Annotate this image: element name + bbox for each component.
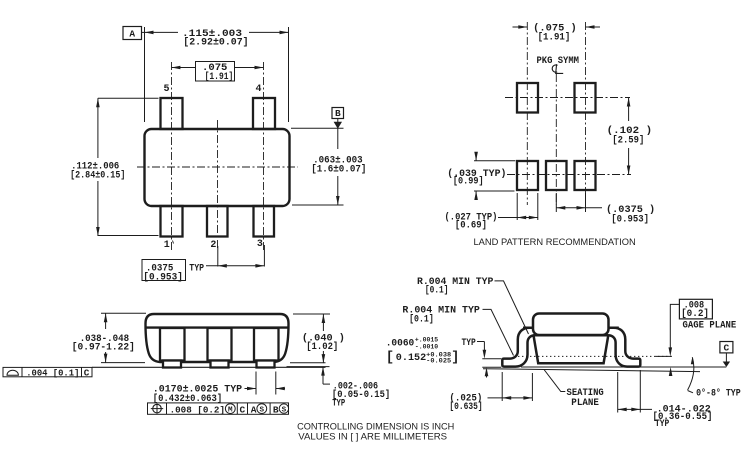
svg-text:2: 2: [210, 240, 216, 251]
svg-text:A: A: [129, 29, 135, 40]
datum C flag: [720, 342, 733, 353]
dim (.075) arrows and text: [513, 26, 528, 28]
svg-text:-.0010: -.0010: [415, 343, 438, 350]
front view: lead 3 body: [254, 328, 279, 361]
dim .115±.003 dimension line: [145, 31, 179, 33]
svg-text:[0.1]: [0.1]: [409, 313, 434, 325]
top view: dim .115±.003 left extension line: [144, 27, 146, 122]
svg-text:B: B: [273, 404, 279, 415]
pin 1: [161, 206, 183, 237]
svg-text:[: [: [386, 351, 394, 366]
leader for upper R.004: [495, 281, 529, 334]
land pad bottom-middle: [546, 161, 567, 190]
svg-text:[0.97-1.22]: [0.97-1.22]: [72, 341, 135, 353]
svg-text:[0.953]: [0.953]: [611, 213, 649, 225]
front view: body bottom extension line right: [290, 362, 326, 364]
svg-text:[2.92±0.07]: [2.92±0.07]: [183, 37, 248, 49]
svg-text:[0.99]: [0.99]: [453, 175, 484, 187]
svg-text:[0.635]: [0.635]: [449, 401, 482, 413]
dim (.027 TYP) extension lines: [516, 193, 518, 220]
svg-text:TYP: TYP: [655, 419, 669, 430]
land pad top-right: [575, 83, 596, 113]
front view: package body outline: [146, 314, 289, 362]
pin 4/3 centerline: [263, 62, 265, 250]
svg-text:C: C: [724, 342, 730, 353]
pin 3: [254, 206, 275, 237]
gage plane .008 boxed text: [679, 299, 712, 319]
svg-text:]: ]: [451, 351, 459, 366]
top view horizontal centerline: [137, 166, 298, 168]
land pad bottom-right: [575, 161, 596, 190]
svg-text:[1.91]: [1.91]: [205, 71, 234, 83]
front view: mold parting line: [146, 326, 289, 328]
datum B flag: [332, 108, 344, 119]
dim (.102) dimension line: [628, 98, 630, 122]
dim .075 dimension line: [171, 67, 195, 69]
svg-text:1: 1: [164, 240, 170, 251]
svg-text:C: C: [84, 367, 90, 378]
pin 2 centerline: [217, 120, 219, 250]
front view: lead 1 body: [160, 328, 185, 361]
pin 5/1 centerline: [171, 62, 173, 250]
dim .0375 dimension line: [206, 265, 264, 267]
angle 0-8 deg arc: [688, 357, 694, 390]
centerline symbol: [552, 65, 557, 72]
side view: seating plane line: [521, 366, 726, 368]
dim (.039 TYP) extension lines: [474, 160, 515, 162]
side view: gage plane dotted line: [518, 355, 672, 357]
dim .038-.048 top extension line: [101, 312, 146, 314]
svg-text:[0.2]: [0.2]: [681, 308, 709, 320]
leader for lower R.004: [483, 309, 514, 355]
dim .014-.022 dimension line: [618, 408, 652, 410]
dim .0170±.0025 extension lines: [255, 372, 257, 395]
svg-text:S: S: [260, 406, 265, 414]
pin 2: [207, 206, 228, 237]
pin 4: [253, 98, 275, 129]
svg-text:TYP: TYP: [332, 399, 345, 410]
side view: package body top (mold cap): [533, 314, 609, 336]
svg-text:M: M: [228, 406, 233, 414]
svg-text:[1.91]: [1.91]: [538, 32, 571, 44]
svg-text:-0.025: -0.025: [426, 358, 451, 365]
package body (top view): [145, 129, 290, 206]
svg-text:PLANE: PLANE: [571, 398, 599, 409]
dim .063±.003 top extension line: [291, 127, 344, 129]
land pattern: pad column centerline left: [526, 22, 528, 205]
svg-text:.004 [0.1]: .004 [0.1]: [26, 367, 79, 378]
dim (.040) dimension line: [322, 314, 324, 331]
land pattern: top row centerline: [505, 97, 630, 99]
dim .0375 TYP boxed text: [142, 260, 186, 281]
flatness feature control frame: [3, 367, 92, 376]
dim (.0375) dimension line: [556, 207, 602, 209]
svg-text:[0.1]: [0.1]: [425, 285, 449, 297]
front view: lead 2 foot: [211, 361, 229, 368]
dim (.040) top extension line: [293, 313, 330, 315]
side view: left lead profile: [502, 328, 535, 367]
land pattern: bottom row centerline: [507, 174, 631, 176]
dim (.0375) extension lines: [555, 193, 557, 212]
svg-text:.0060: .0060: [386, 338, 415, 349]
dim .0060 lead thickness extension lines: [482, 358, 501, 360]
dim (.039 TYP) arrows: [475, 152, 477, 161]
dim .038-.048 bottom extension line: [101, 362, 145, 364]
dim .063±.003 bottom extension line: [292, 204, 344, 206]
top view: dim .115±.003 right extension line: [288, 27, 290, 122]
dim .002-.006 arrow and leader: [322, 367, 324, 385]
dim (.025) extension lines: [501, 372, 503, 401]
front view: lead 2 body: [208, 328, 232, 361]
svg-text:0.152: 0.152: [396, 353, 426, 364]
side view: right lead profile: [608, 328, 640, 367]
svg-text:VALUES IN [ ] ARE MILLIMETERS: VALUES IN [ ] ARE MILLIMETERS: [298, 431, 447, 442]
side view: package body lower outline: [534, 335, 609, 363]
dim .0170±.0025 dimension line: [245, 388, 257, 390]
svg-text:3: 3: [257, 239, 263, 250]
datum A flag: [123, 27, 142, 40]
pin 5: [161, 98, 183, 129]
svg-text:TYP: TYP: [189, 263, 204, 274]
side view: lead top/bottom lines through body: [523, 326, 619, 329]
svg-text:[1.6±0.07]: [1.6±0.07]: [311, 163, 366, 175]
front view: seating plane line: [92, 366, 326, 368]
svg-text:C: C: [240, 404, 246, 415]
land pattern: package symmetry centerline vertical: [555, 74, 557, 205]
dim .002-.006 seating extension line right: [287, 366, 330, 368]
gage plane leader and arrow: [670, 304, 679, 348]
dim (.027 TYP) dimension line: [498, 217, 538, 219]
svg-text:TYP: TYP: [462, 338, 476, 349]
svg-text:[2.59]: [2.59]: [612, 134, 644, 146]
dim (.025) dimension line: [488, 397, 533, 399]
dim .063±.003 dimension line: [337, 128, 339, 149]
land pattern: pad column centerline right: [585, 22, 587, 205]
dim .014-.022 extension lines: [617, 372, 619, 413]
svg-text:5: 5: [163, 84, 169, 95]
svg-text:0°-8° TYP: 0°-8° TYP: [696, 388, 741, 400]
front view: lead 3 foot: [257, 361, 275, 368]
svg-text:[2.84±0.15]: [2.84±0.15]: [70, 170, 125, 182]
svg-text:A: A: [251, 404, 257, 415]
dim .038-.048 dimension line: [105, 313, 107, 329]
svg-text:.008 [0.2]: .008 [0.2]: [170, 404, 225, 415]
dim .0060 arrows with TYP bracket: [477, 341, 484, 343]
front view: lead 1 foot: [163, 361, 181, 368]
position feature control frame: [148, 403, 289, 414]
svg-text:GAGE PLANE: GAGE PLANE: [683, 320, 737, 331]
dim .075 boxed text: [196, 62, 235, 82]
dim .0375 extension lines: [217, 246, 219, 267]
side view: lead tilt line 0-8 deg: [483, 369, 700, 372]
dim .112±.006 bottom extension line: [98, 235, 159, 237]
svg-text:4: 4: [255, 84, 261, 95]
svg-text:[0.953]: [0.953]: [143, 271, 183, 283]
dim .112±.006 dimension line: [97, 98, 99, 158]
svg-text:B: B: [335, 108, 341, 119]
svg-text:S: S: [282, 406, 287, 414]
svg-text:PKG SYMM: PKG SYMM: [537, 56, 580, 67]
dim .112±.006 top extension line: [98, 97, 159, 99]
angle 0-8 deg text: [688, 391, 693, 393]
svg-text:LAND PATTERN RECOMMENDATION: LAND PATTERN RECOMMENDATION: [474, 237, 636, 248]
svg-text:[1.02]: [1.02]: [306, 341, 338, 353]
svg-text:[0.69]: [0.69]: [455, 220, 487, 232]
land pad bottom-left: [517, 161, 538, 190]
land pad top-left: [517, 83, 538, 113]
